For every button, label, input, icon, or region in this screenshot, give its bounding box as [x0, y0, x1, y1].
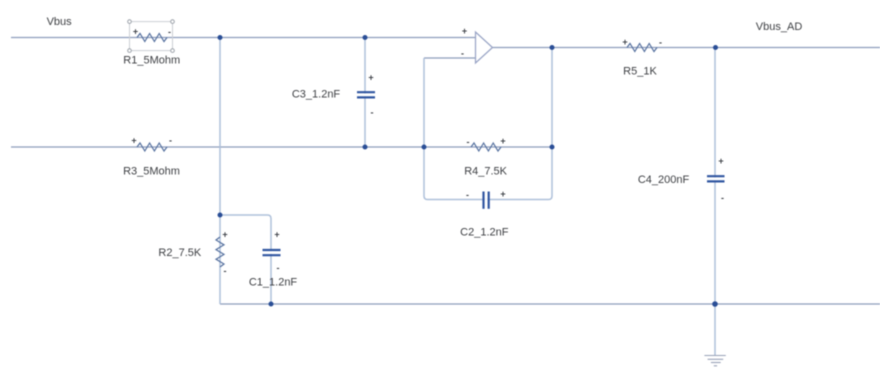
svg-text:+: +	[133, 27, 138, 37]
svg-text:+: +	[718, 156, 723, 166]
svg-text:C2_1.2nF: C2_1.2nF	[460, 226, 509, 238]
svg-text:-: -	[659, 38, 662, 48]
svg-text:-: -	[168, 27, 171, 37]
svg-text:Vbus_AD: Vbus_AD	[756, 21, 803, 33]
svg-text:Vbus: Vbus	[47, 16, 73, 28]
svg-text:+: +	[274, 230, 279, 240]
svg-text:R3_5Mohm: R3_5Mohm	[123, 166, 180, 178]
svg-text:-: -	[169, 136, 172, 146]
svg-text:-: -	[461, 49, 464, 59]
svg-text:-: -	[467, 137, 470, 147]
svg-text:+: +	[368, 73, 373, 83]
svg-text:+: +	[462, 26, 467, 36]
svg-text:R1_5Mohm: R1_5Mohm	[123, 55, 180, 67]
svg-text:R5_1K: R5_1K	[623, 66, 657, 78]
svg-text:-: -	[466, 190, 469, 200]
svg-text:-: -	[371, 108, 374, 118]
svg-text:C1_1.2nF: C1_1.2nF	[249, 277, 298, 289]
svg-text:C3_1.2nF: C3_1.2nF	[292, 88, 341, 100]
svg-text:+: +	[500, 136, 505, 146]
svg-text:-: -	[721, 193, 724, 203]
svg-text:R2_7.5K: R2_7.5K	[158, 247, 201, 259]
svg-text:+: +	[500, 189, 505, 199]
svg-text:C4_200nF: C4_200nF	[638, 174, 690, 186]
svg-text:-: -	[224, 266, 227, 276]
svg-text:-: -	[277, 263, 280, 273]
svg-text:+: +	[622, 37, 627, 47]
svg-text:R4_7.5K: R4_7.5K	[464, 166, 507, 178]
svg-text:+: +	[131, 136, 136, 146]
svg-text:+: +	[222, 230, 227, 240]
